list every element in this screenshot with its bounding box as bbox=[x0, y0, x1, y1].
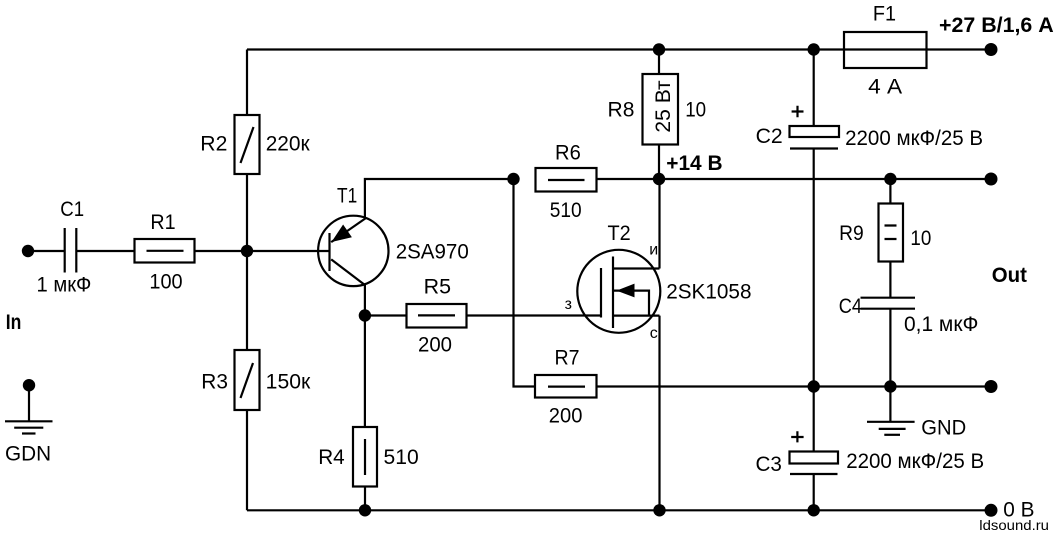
resistor R4 bbox=[318, 427, 419, 487]
wire R2 to input node bbox=[246, 174, 248, 251]
node collector junction bbox=[359, 309, 371, 321]
svg-text:510: 510 bbox=[550, 199, 582, 222]
terminal +27V bbox=[985, 43, 998, 56]
wire C3 bottom to 0V rail bbox=[813, 474, 815, 510]
svg-text:R7: R7 bbox=[555, 347, 580, 370]
svg-text:200: 200 bbox=[418, 334, 452, 357]
svg-text:R9: R9 bbox=[839, 222, 864, 245]
node R9 top junction bbox=[884, 173, 896, 185]
resistor R2 bbox=[200, 115, 310, 174]
svg-text:GND: GND bbox=[921, 417, 966, 440]
svg-text:2SA970: 2SA970 bbox=[396, 240, 469, 263]
terminal Out top bbox=[985, 173, 998, 186]
wire C4 to rail3 bbox=[889, 309, 891, 387]
resistor R9 bbox=[839, 204, 931, 262]
node rail3 C2/C3 junction bbox=[808, 380, 820, 392]
svg-text:10: 10 bbox=[910, 227, 931, 250]
node C2 top junction bbox=[808, 43, 820, 55]
wire R3 to bottom rail bbox=[246, 410, 248, 510]
wire C2 top bbox=[813, 50, 815, 127]
node R8 top rail junction bbox=[653, 43, 665, 55]
wire rail2 right segment bbox=[597, 178, 992, 180]
svg-text:2200 мкФ/25 В: 2200 мкФ/25 В bbox=[845, 127, 983, 150]
wire R9 to C4 bbox=[889, 262, 891, 298]
wire input node to R3 bbox=[246, 251, 248, 350]
svg-text:200: 200 bbox=[549, 404, 583, 427]
svg-text:100: 100 bbox=[149, 271, 182, 294]
terminal In bbox=[22, 245, 34, 257]
wire collector node to R4 bbox=[364, 316, 366, 428]
node C3 bottom bbox=[808, 504, 820, 516]
svg-text:R1: R1 bbox=[150, 211, 175, 234]
svg-text:T1: T1 bbox=[337, 184, 357, 207]
node T2 drain bottom bbox=[653, 504, 665, 516]
wire T2 drain to bottom rail bbox=[658, 316, 660, 511]
fuse F1 bbox=[844, 3, 927, 99]
svg-text:и: и bbox=[649, 242, 658, 259]
node emitter/R6/R7 junction bbox=[507, 173, 519, 185]
wire R9 top bbox=[889, 179, 891, 204]
resistor R5 bbox=[407, 276, 467, 357]
terminal 0V bbox=[985, 504, 998, 517]
terminal Out bottom bbox=[985, 380, 998, 393]
svg-text:2SK1058: 2SK1058 bbox=[666, 281, 751, 304]
wire terminal to C1 bbox=[28, 250, 64, 252]
wire C2 bottom to rail3 bbox=[813, 149, 815, 387]
wire C3 top bbox=[813, 387, 815, 452]
svg-text:510: 510 bbox=[384, 446, 419, 469]
node rail2 +14 junction bbox=[653, 173, 665, 185]
svg-text:F1: F1 bbox=[873, 3, 896, 26]
node rail3 GND junction bbox=[884, 380, 896, 392]
svg-text:T2: T2 bbox=[608, 222, 631, 245]
svg-text:R2: R2 bbox=[200, 133, 227, 156]
wire R8 bottom bbox=[658, 145, 660, 180]
svg-text:4 А: 4 А bbox=[868, 76, 902, 99]
wire R1 to T1 base bbox=[195, 250, 330, 252]
svg-text:з: з bbox=[565, 296, 572, 313]
resistor R7 bbox=[535, 347, 597, 428]
wire bottom 0V rail bbox=[247, 509, 991, 511]
wire feedback drop x=513.5 bbox=[514, 179, 536, 387]
wire collector node to R5 bbox=[365, 314, 407, 316]
ground GND bbox=[867, 387, 966, 440]
resistor R3 bbox=[201, 350, 311, 410]
svg-text:0,1 мкФ: 0,1 мкФ bbox=[904, 313, 978, 336]
capacitor C4 bbox=[839, 295, 979, 336]
transistor T2 bbox=[565, 222, 752, 342]
svg-text:R6: R6 bbox=[555, 141, 581, 164]
wire top +27V rail bbox=[247, 48, 991, 50]
svg-text:Out: Out bbox=[992, 264, 1027, 287]
wire C1 to R1 bbox=[76, 250, 134, 252]
svg-text:R8: R8 bbox=[608, 99, 635, 122]
capacitor C3 bbox=[756, 431, 985, 476]
svg-text:+27 В/1,6 А: +27 В/1,6 А bbox=[939, 14, 1054, 37]
svg-text:2200 мкФ/25 В: 2200 мкФ/25 В bbox=[846, 450, 984, 473]
svg-text:+14 В: +14 В bbox=[666, 152, 722, 175]
wire riser top rail to R2 bbox=[246, 50, 248, 116]
svg-text:C4: C4 bbox=[839, 295, 862, 318]
svg-text:10: 10 bbox=[685, 99, 706, 122]
wire R5 to T2 gate bbox=[467, 314, 602, 316]
svg-text:R4: R4 bbox=[318, 446, 345, 469]
svg-text:In: In bbox=[6, 311, 22, 334]
capacitor C2 bbox=[756, 106, 984, 150]
ground input GDN bbox=[5, 379, 53, 465]
svg-text:C3: C3 bbox=[756, 453, 782, 476]
svg-text:ldsound.ru: ldsound.ru bbox=[979, 517, 1049, 533]
svg-text:25 Вт: 25 Вт bbox=[652, 80, 675, 133]
svg-text:220к: 220к bbox=[266, 133, 311, 156]
transistor T1 bbox=[318, 184, 469, 286]
svg-text:R3: R3 bbox=[201, 371, 228, 394]
svg-text:R5: R5 bbox=[424, 276, 451, 299]
wire rail3 GND mid rail bbox=[597, 385, 992, 387]
resistor R8 bbox=[608, 74, 707, 145]
svg-text:1 мкФ: 1 мкФ bbox=[37, 273, 92, 296]
node base junction bbox=[241, 245, 253, 257]
resistor R6 bbox=[536, 141, 597, 222]
resistor R1 bbox=[135, 211, 195, 294]
wire T1 emitter to rail2 bbox=[365, 179, 514, 218]
svg-text:C1: C1 bbox=[60, 198, 84, 221]
wire R4 to bottom rail bbox=[364, 487, 366, 511]
node R4 bottom bbox=[359, 504, 371, 516]
svg-text:C2: C2 bbox=[756, 125, 783, 148]
svg-text:150к: 150к bbox=[266, 371, 311, 394]
wire R8 top bbox=[658, 50, 660, 75]
svg-text:GDN: GDN bbox=[5, 442, 51, 465]
wire T1 collector down bbox=[364, 285, 366, 316]
capacitor C1 bbox=[37, 198, 92, 296]
svg-text:с: с bbox=[650, 325, 658, 342]
wire rail2 down to T2 source bbox=[658, 179, 660, 269]
